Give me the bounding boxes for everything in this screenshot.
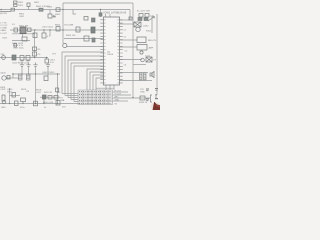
wire table stub 2	[65, 95, 78, 97]
crystal X601	[91, 27, 95, 33]
transistor Q102	[136, 27, 140, 31]
label R618	[36, 90, 61, 104]
capacitor C603	[33, 33, 37, 38]
capacitor C622 dark	[99, 13, 102, 16]
label Q102	[143, 26, 152, 33]
label C607	[13, 45, 24, 50]
AC plug dot	[0, 9, 2, 11]
wire vertical x46.5	[46, 58, 48, 60]
ground G2	[26, 63, 30, 67]
wire corner c1	[87, 69, 104, 90]
ground G3	[46, 63, 50, 67]
logo marks	[146, 88, 158, 101]
svg-text:REG 9V: REG 9V	[148, 40, 157, 42]
svg-text:R606 10k: R606 10k	[66, 35, 76, 37]
speaker SP1	[150, 72, 154, 78]
capacitor C641 on bus	[15, 101, 19, 106]
wire table right 3	[113, 97, 151, 99]
label Q604	[0, 87, 29, 94]
svg-text:1.8: 1.8	[124, 65, 127, 67]
svg-text:V OUT: V OUT	[115, 93, 122, 95]
plug P2	[2, 100, 6, 104]
capacitor C608	[14, 44, 17, 48]
svg-text:GND: GND	[115, 99, 120, 101]
net list text	[0, 23, 8, 40]
resistor R620	[54, 96, 58, 100]
wire vertical x34.5	[34, 30, 36, 58]
svg-text:R105 1k: R105 1k	[139, 102, 148, 104]
wire y74 row	[12, 73, 60, 75]
svg-text:C632: C632	[0, 89, 6, 91]
wire audio in y57.5	[0, 57, 48, 59]
capacitor C101 dark	[138, 18, 148, 21]
label to CBA	[60, 98, 65, 102]
svg-text:IC401 LA76810A-56: IC401 LA76810A-56	[104, 12, 127, 15]
wire bottom cluster	[40, 97, 60, 103]
svg-text:D601: D601	[45, 6, 51, 8]
svg-text:C607 100u: C607 100u	[13, 48, 24, 50]
wire bottom bus	[0, 103, 80, 105]
wire IC right y80.5	[120, 80, 153, 82]
wire left seg y40.5	[12, 40, 30, 42]
wire AC line	[0, 9, 130, 11]
wire L2	[65, 56, 104, 96]
wire x23 to bus	[22, 102, 24, 104]
capacitor C609	[12, 55, 16, 60]
capacitor C604	[42, 33, 46, 38]
capacitor C803	[48, 14, 52, 18]
svg-text:CBA: CBA	[60, 99, 65, 102]
svg-text:R604: R604	[55, 25, 61, 27]
wire transistor base	[7, 77, 19, 79]
IC U201 pin numbers	[104, 19, 118, 83]
wire top bus B+	[63, 2, 133, 4]
svg-text:T801: T801	[18, 5, 24, 7]
wire x73 stub	[73, 10, 76, 15]
wire table right 2	[113, 94, 132, 96]
wire corner c4	[96, 78, 104, 90]
pin voltage texts	[124, 30, 128, 67]
resistor R105	[140, 96, 145, 100]
wire gnd stem 1	[21, 67, 23, 75]
svg-text:3.1: 3.1	[124, 37, 127, 39]
resistor R603	[28, 28, 32, 32]
wire x100 drop	[100, 10, 102, 18]
wire vertical x44	[43, 30, 45, 33]
wire vertical x152	[151, 16, 153, 33]
svg-text:5 OUT: 5 OUT	[0, 33, 7, 35]
label GND bus	[1, 107, 66, 110]
box with X	[146, 57, 152, 62]
capacitor C103	[140, 73, 143, 80]
resistor R613	[7, 76, 10, 80]
transistor Q602	[2, 76, 6, 80]
resistor R611	[26, 56, 30, 61]
IC U201 body	[104, 17, 120, 85]
resistor R610	[20, 56, 24, 61]
wire L1	[62, 52, 104, 94]
junction dots	[9, 9, 134, 104]
capacitor C643 on bus	[56, 101, 60, 106]
svg-text:4 ABL: 4 ABL	[0, 29, 7, 32]
wire IC top stubs	[106, 14, 111, 17]
wire IC bottom stub 3	[113, 85, 115, 90]
wire IC bottom stub 2	[109, 85, 111, 90]
svg-text:C610 R612 C611: C610 R612 C611	[12, 63, 30, 65]
wire corner c3	[93, 75, 104, 90]
svg-text:AC220: AC220	[0, 12, 7, 15]
resistor R615	[2, 95, 5, 101]
svg-text:H OUT: H OUT	[115, 90, 122, 92]
svg-text:R102: R102	[146, 31, 152, 33]
wire row y38.5	[64, 38, 104, 40]
svg-text:2.2: 2.2	[124, 30, 127, 32]
svg-text:Q602: Q602	[0, 73, 6, 75]
svg-text:L601 C624: L601 C624	[42, 27, 53, 29]
resistor R617	[21, 98, 26, 102]
wire vertical x157	[156, 14, 158, 95]
capacitor C618	[43, 95, 47, 99]
resistor R614	[44, 76, 48, 81]
svg-text:C801: C801	[19, 16, 25, 18]
capacitor C612	[33, 47, 37, 51]
capacitor C614	[45, 59, 49, 63]
svg-text:C617: C617	[36, 92, 42, 94]
resistor R633	[56, 88, 59, 92]
wire gnd stem 2	[28, 67, 30, 75]
wire L4	[71, 63, 104, 100]
resistor R601	[39, 8, 43, 11]
wire vertical x133	[132, 3, 134, 98]
capacitor C620	[84, 17, 88, 21]
capacitor C613	[33, 52, 37, 56]
diode D102	[134, 22, 141, 27]
transistor Q101 cluster boxes	[139, 14, 149, 18]
svg-text:DY: DY	[153, 60, 157, 62]
svg-text:T471: T471	[145, 55, 151, 57]
svg-text:12V: 12V	[150, 16, 154, 18]
wire IC right y20	[120, 19, 131, 21]
resistor R602	[14, 28, 18, 32]
table text	[79, 92, 112, 104]
IC U201 pins left	[100, 20, 103, 83]
transformer T601	[14, 1, 18, 6]
ground G4	[33, 63, 37, 67]
wire y64.5 right	[133, 64, 146, 66]
label row under y57	[12, 63, 30, 65]
wire x28 drop	[28, 7, 30, 10]
fuse F601	[11, 8, 15, 11]
wire IC bottom stub 1	[105, 85, 107, 90]
svg-text:D802: D802	[55, 14, 61, 16]
transistor Q103	[140, 51, 143, 54]
svg-text:Q102: Q102	[143, 26, 149, 28]
arrow to CRT	[148, 17, 155, 22]
capacitor C621 dark	[92, 18, 96, 22]
wire y33.8 left	[12, 33, 35, 35]
label net right 1	[115, 90, 122, 101]
wire vertical x57.5	[57, 74, 59, 104]
wire table stub 3	[68, 97, 78, 99]
wire x22.5 link	[22, 34, 24, 37]
svg-text:B+ 115V CRT: B+ 115V CRT	[137, 11, 151, 13]
svg-text:5.0: 5.0	[125, 51, 128, 53]
wire L5	[74, 66, 104, 102]
resistor R608	[22, 37, 27, 41]
capacitor C615	[19, 74, 23, 80]
relay box K2	[137, 45, 147, 51]
svg-text:76810: 76810	[107, 54, 114, 56]
wire x50 drop	[49, 10, 51, 15]
svg-text:AMP: AMP	[149, 47, 154, 50]
wire IC right y72.5	[120, 72, 149, 74]
resistor R607	[84, 36, 89, 41]
svg-text:25V: 25V	[62, 107, 66, 109]
capacitor C104	[144, 73, 147, 80]
wire L3	[68, 60, 104, 98]
wire corner c2	[90, 72, 104, 90]
svg-text:GND: GND	[1, 107, 6, 109]
wire vertical x130	[129, 10, 131, 21]
AC line 2	[0, 11, 11, 13]
resistor R605	[76, 27, 80, 32]
wire y46.5 to IC	[66, 46, 103, 48]
cap lead marks	[21, 60, 30, 61]
capacitor C642 on bus	[34, 101, 38, 106]
wire table stub 1	[62, 93, 78, 95]
resistor R619	[48, 96, 52, 100]
svg-text:R41 C42: R41 C42	[44, 92, 53, 94]
wire gnd stem 3	[36, 67, 49, 77]
svg-text:C601: C601	[2, 38, 8, 40]
svg-text:VOLUME: VOLUME	[64, 25, 74, 27]
diode D601	[56, 8, 60, 12]
wire mid row	[10, 29, 104, 31]
capacitor C605	[92, 38, 95, 42]
transformer T602	[20, 27, 26, 34]
wire x13 link	[12, 74, 14, 78]
logo red stamp	[151, 102, 161, 111]
wire table right 4	[113, 100, 129, 102]
wire IC right y59	[120, 59, 143, 61]
connector J1	[151, 95, 153, 102]
wire IC right y24	[120, 23, 135, 25]
svg-text:P801: P801	[18, 2, 24, 4]
wire y95 left	[10, 95, 21, 97]
wire vertical x50	[49, 30, 51, 36]
switch S601 box	[27, 3, 30, 7]
wire vertical x35.5	[35, 74, 37, 104]
wire vertical x9.5	[9, 88, 11, 104]
connector mark CN2	[129, 17, 132, 20]
wire table stub 4	[71, 100, 78, 102]
ground G1	[20, 63, 24, 67]
svg-text:AFC: AFC	[115, 95, 120, 98]
resistor R604	[56, 27, 60, 32]
resistor R632	[12, 93, 16, 98]
jack J601	[2, 56, 6, 60]
svg-text:S801: S801	[34, 2, 40, 4]
transistor Q601	[63, 43, 67, 47]
wire above table	[96, 87, 114, 89]
wire table right 1	[113, 91, 129, 93]
svg-text:VIN: VIN	[1, 54, 5, 56]
wire vertical x63	[62, 3, 64, 43]
capacitor C616	[27, 74, 31, 80]
svg-text:GND: GND	[140, 91, 145, 93]
IC U201 pins right	[120, 20, 123, 83]
label 12V GND	[140, 89, 145, 93]
voltage table	[78, 90, 113, 105]
relay box K1	[137, 37, 146, 43]
wire IC right y44	[120, 40, 138, 47]
transistor Q104	[141, 58, 145, 62]
IC U201 label	[104, 12, 127, 56]
svg-text:Q603 C1815: Q603 C1815	[42, 72, 55, 74]
